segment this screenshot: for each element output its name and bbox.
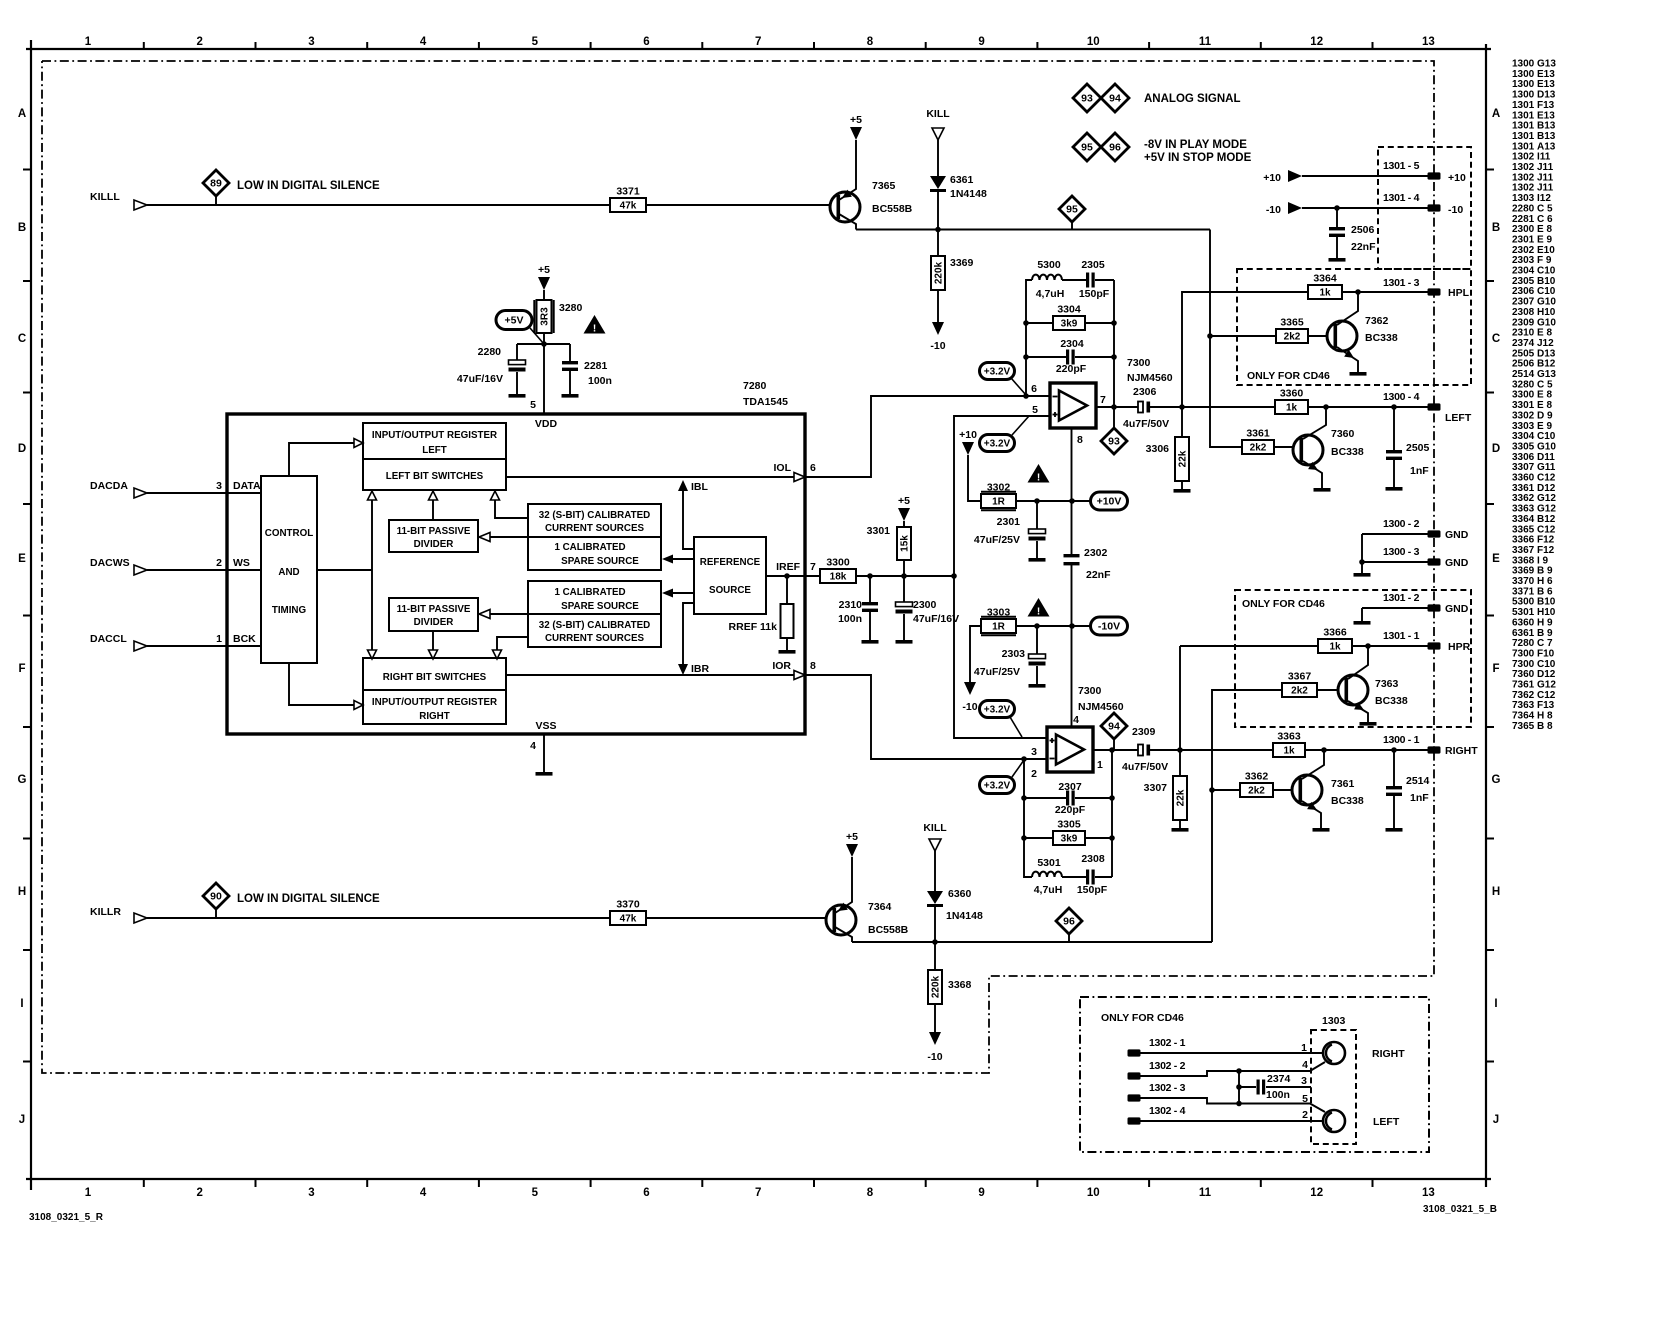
control-switches vertical double arrow (371, 500, 373, 650)
svg-text:D13: D13 (1537, 90, 1556, 101)
svg-text:VDD: VDD (535, 418, 558, 430)
wire 1302-4 (1128, 1117, 1141, 1124)
wire -10V rail (1016, 625, 1091, 627)
svg-text:ANALOG SIGNAL: ANALOG SIGNAL (1144, 93, 1240, 105)
wire KILLL (147, 204, 838, 206)
svg-text:96: 96 (1109, 141, 1121, 153)
svg-text:C12: C12 (1537, 473, 1556, 484)
pad 1301-2 (1428, 604, 1441, 611)
voltage oval -10V (1091, 617, 1128, 635)
svg-text:C: C (1492, 333, 1500, 345)
svg-text:J: J (19, 1114, 25, 1126)
resistor 3307 22k (1179, 750, 1181, 776)
svg-text:REFERENCE: REFERENCE (700, 557, 761, 568)
svg-text:1303: 1303 (1322, 1015, 1346, 1027)
svg-text:J11: J11 (1537, 183, 1554, 194)
svg-text:C12: C12 (1537, 524, 1556, 535)
svg-text:E: E (18, 553, 26, 565)
capacitor 2304 220pF (1026, 356, 1066, 358)
svg-text:6360: 6360 (1512, 617, 1535, 628)
pad 1300-1 (1428, 746, 1441, 753)
svg-text:RREF 11k: RREF 11k (729, 621, 778, 633)
svg-text:BCK: BCK (233, 633, 256, 645)
svg-text:2: 2 (1031, 768, 1037, 780)
svg-text:+10: +10 (1448, 172, 1466, 184)
svg-text:7362: 7362 (1365, 315, 1389, 327)
svg-text:G13: G13 (1537, 369, 1556, 380)
svg-text:2301: 2301 (997, 516, 1021, 528)
svg-text:3302: 3302 (1512, 410, 1535, 421)
svg-text:1302 - 2: 1302 - 2 (1149, 1060, 1186, 1072)
svg-text:5300: 5300 (1512, 597, 1535, 608)
svg-text:BC338: BC338 (1375, 695, 1408, 707)
junction KILL rail / 6360 (932, 939, 938, 945)
IBL bias line (683, 490, 694, 549)
svg-text:3302: 3302 (987, 482, 1011, 494)
svg-text:BC338: BC338 (1331, 795, 1364, 807)
resistor 3366 1k (1318, 639, 1352, 653)
svg-text:2505: 2505 (1406, 442, 1430, 454)
svg-text:1302 - 1: 1302 - 1 (1149, 1037, 1186, 1049)
svg-text:3: 3 (1301, 1075, 1307, 1087)
HPR feed vertical (1179, 646, 1181, 750)
wire HPR branch (1180, 645, 1318, 647)
junction 7361 collector (1321, 747, 1327, 753)
wire sleeve left jack (pin 5) (1239, 1104, 1325, 1113)
svg-text:3280: 3280 (559, 302, 583, 314)
svg-text:BC338: BC338 (1331, 446, 1364, 458)
svg-text:+5V: +5V (505, 315, 524, 327)
wire diamond 96 stem (1068, 934, 1070, 942)
svg-text:2514: 2514 (1512, 369, 1535, 380)
svg-text:7360: 7360 (1512, 669, 1535, 680)
wire KILL-left to mute resistors (1210, 230, 1242, 448)
svg-text:E: E (1492, 553, 1500, 565)
legend diamond 96 (1101, 133, 1129, 161)
wire -10 to 1301-4 (1302, 207, 1428, 209)
svg-text:1303: 1303 (1512, 193, 1535, 204)
svg-text:3361: 3361 (1246, 428, 1270, 440)
svg-text:6: 6 (810, 462, 816, 474)
svg-text:11: 11 (1199, 36, 1212, 48)
block 11-BIT PASSIVE DIVIDER (right) (389, 598, 478, 631)
capacitor 2301 47uF/25V (1036, 501, 1038, 529)
wire 5300 to 2305 (1062, 279, 1086, 281)
capacitor 2514 1nF (1393, 750, 1395, 786)
svg-text:96: 96 (1063, 915, 1075, 927)
svg-text:C 6: C 6 (1537, 214, 1553, 225)
wire 3368 to -10 (934, 1004, 936, 1032)
svg-text:3365: 3365 (1280, 317, 1304, 329)
diamond 96 (on KILL rail) (1056, 908, 1082, 934)
svg-text:3371: 3371 (616, 186, 640, 198)
DACWS input arrow (134, 565, 147, 575)
svg-text:A: A (1492, 108, 1500, 120)
svg-text:SPARE SOURCE: SPARE SOURCE (561, 601, 639, 612)
7364 collector wire (835, 927, 852, 942)
svg-text:2305: 2305 (1081, 259, 1105, 271)
wire diamond 94 stem (1113, 739, 1115, 750)
svg-text:!: ! (593, 324, 596, 335)
svg-text:-10: -10 (1266, 204, 1281, 216)
junction VDD node (541, 341, 547, 347)
svg-text:1k: 1k (1319, 288, 1331, 299)
bottom ruler ticks (143, 1179, 145, 1187)
svg-text:7364: 7364 (868, 901, 892, 913)
svg-text:NJM4560: NJM4560 (1127, 372, 1173, 384)
left row boundary ticks (23, 169, 31, 171)
svg-text:1N4148: 1N4148 (950, 188, 987, 200)
arrow sources to divider (right) (490, 613, 528, 615)
svg-text:F12: F12 (1537, 535, 1555, 546)
block INPUT/OUTPUT REGISTER LEFT (363, 423, 506, 459)
junction 2374 (1236, 1084, 1242, 1090)
transistor 7363 BC338 (1338, 675, 1368, 705)
svg-text:93: 93 (1108, 435, 1120, 447)
svg-text:1 CALIBRATED: 1 CALIBRATED (554, 542, 625, 553)
svg-text:4,7uH: 4,7uH (1034, 884, 1063, 896)
svg-text:RIGHT: RIGHT (1372, 1048, 1405, 1060)
svg-text:E 9: E 9 (1537, 234, 1552, 245)
svg-text:-8V IN PLAY MODE: -8V IN PLAY MODE (1144, 139, 1247, 151)
svg-text:5301: 5301 (1512, 607, 1535, 618)
svg-text:2309: 2309 (1512, 317, 1535, 328)
svg-text:+5: +5 (846, 831, 858, 843)
svg-text:5: 5 (1032, 404, 1038, 416)
svg-text:B: B (18, 222, 26, 234)
pad 1300-2 (1428, 530, 1441, 537)
svg-text:7364: 7364 (1512, 711, 1535, 722)
svg-text:HPL: HPL (1448, 287, 1470, 299)
wire DATA (147, 492, 261, 494)
svg-text:2374: 2374 (1267, 1073, 1291, 1085)
svg-text:CONTROL: CONTROL (265, 528, 313, 539)
svg-text:3363: 3363 (1277, 731, 1301, 743)
svg-text:2514: 2514 (1406, 775, 1430, 787)
jack tie vertical (1238, 1071, 1240, 1104)
svg-text:1300 - 3: 1300 - 3 (1383, 546, 1420, 558)
svg-text:1: 1 (85, 36, 92, 48)
svg-text:+10: +10 (959, 429, 977, 441)
svg-text:C 5: C 5 (1537, 379, 1553, 390)
svg-text:H: H (1492, 886, 1500, 898)
right row boundary ticks (1486, 169, 1494, 171)
feedback rail right (lower) (1111, 750, 1113, 877)
svg-text:J11: J11 (1537, 172, 1554, 183)
svg-text:7360: 7360 (1331, 428, 1355, 440)
diamond 94 (right output) (1101, 713, 1127, 739)
svg-text:5: 5 (532, 36, 539, 48)
7364 emitter to +5 (835, 857, 852, 913)
svg-text:D: D (18, 443, 26, 455)
svg-text:5: 5 (532, 1187, 539, 1199)
svg-text:1k: 1k (1286, 403, 1298, 414)
svg-text:LOW IN DIGITAL SILENCE: LOW IN DIGITAL SILENCE (237, 893, 380, 905)
svg-text:WS: WS (233, 557, 250, 569)
junction 7360 collector (1323, 404, 1329, 410)
svg-text:4u7F/50V: 4u7F/50V (1123, 418, 1169, 430)
svg-text:F10: F10 (1537, 648, 1555, 659)
-10 feed arrow (1288, 202, 1302, 214)
svg-text:100n: 100n (838, 613, 862, 625)
junction RREF/IREF (784, 573, 790, 579)
resistor 3304 3k9 (1026, 322, 1053, 324)
svg-text:8: 8 (810, 660, 816, 672)
diamond 95 (on KILL rail) (1059, 196, 1085, 222)
svg-text:1: 1 (1097, 759, 1103, 771)
svg-text:7300: 7300 (1512, 659, 1535, 670)
svg-text:3303: 3303 (1512, 421, 1535, 432)
wire KILL-left rail (856, 229, 1210, 231)
junction 2505 (1391, 404, 1397, 410)
svg-text:C10: C10 (1537, 266, 1556, 277)
resistor 3306 22k (1181, 407, 1183, 437)
dashed box 1301 supply area (1378, 147, 1471, 269)
svg-text:LEFT: LEFT (1373, 1116, 1400, 1128)
pad 1301-1 (1428, 642, 1441, 649)
svg-text:DACCL: DACCL (90, 633, 127, 645)
svg-text:LEFT: LEFT (1445, 412, 1472, 424)
capacitor 2307 220pF (1024, 797, 1066, 799)
wire IOR to op-amp 7300b (805, 675, 1047, 759)
svg-text:3361: 3361 (1512, 483, 1535, 494)
svg-text:3307: 3307 (1512, 462, 1535, 473)
svg-text:BC558B: BC558B (872, 203, 913, 215)
svg-text:I: I (1494, 998, 1497, 1010)
resistor 3368 220k (928, 970, 942, 1004)
svg-text:+3.2V: +3.2V (984, 367, 1011, 378)
7362 emitter (1337, 347, 1358, 372)
resistor 3367 2k2 (1282, 683, 1317, 697)
wire IREF (766, 575, 954, 577)
RCA jack LEFT (1303) (1323, 1110, 1345, 1132)
svg-text:-10V: -10V (1098, 621, 1120, 633)
diode 6361 1N4148 (930, 176, 946, 189)
svg-text:F: F (1492, 663, 1499, 675)
svg-text:B 6: B 6 (1537, 586, 1553, 597)
svg-text:6361: 6361 (950, 174, 974, 186)
wire 1300-2 GND (1362, 533, 1428, 535)
svg-text:RIGHT: RIGHT (1445, 745, 1478, 757)
svg-text:7363: 7363 (1375, 678, 1399, 690)
svg-text:2506: 2506 (1512, 359, 1535, 370)
leader +5V oval (530, 328, 544, 344)
svg-text:IREF: IREF (776, 561, 801, 573)
svg-text:3364: 3364 (1313, 273, 1337, 285)
junction 7363 collector (1365, 643, 1371, 649)
junction 3305 right (1109, 835, 1115, 841)
svg-text:2k2: 2k2 (1250, 443, 1267, 454)
diode 6360 1N4148 (927, 891, 943, 904)
7362 collector (1337, 292, 1358, 325)
svg-text:12: 12 (1310, 36, 1323, 48)
pad 1301-3 (1428, 288, 1441, 295)
svg-text:INPUT/OUTPUT REGISTER: INPUT/OUTPUT REGISTER (372, 430, 497, 441)
svg-text:2: 2 (216, 557, 222, 569)
svg-text:6: 6 (1031, 383, 1037, 395)
svg-text:9: 9 (978, 36, 984, 48)
svg-text:3360: 3360 (1512, 473, 1535, 484)
svg-text:F13: F13 (1537, 700, 1555, 711)
junction 2304 right (1111, 354, 1117, 360)
transistor 7365 BC558B (PNP) (830, 192, 860, 222)
svg-text:D12: D12 (1537, 669, 1556, 680)
svg-text:7280: 7280 (743, 380, 767, 392)
svg-text:1302: 1302 (1512, 172, 1535, 183)
svg-text:150pF: 150pF (1077, 884, 1108, 896)
svg-text:A: A (18, 108, 26, 120)
pad 1301-4 (1428, 204, 1441, 211)
RCA jack RIGHT (1303) (1323, 1042, 1345, 1064)
IBR bias line (683, 603, 694, 665)
svg-text:3363: 3363 (1512, 504, 1535, 515)
arrow control to I/O register left (289, 443, 354, 476)
svg-text:1nF: 1nF (1410, 465, 1429, 477)
svg-text:12: 12 (1310, 1187, 1323, 1199)
svg-text:4u7F/50V: 4u7F/50V (1122, 761, 1168, 773)
junction 3362 feed (1209, 787, 1215, 793)
svg-text:H10: H10 (1537, 607, 1556, 618)
resistor 3365 2k2 (1276, 329, 1308, 343)
VSS pin 4 (543, 734, 545, 772)
op-amp U7300a NJM4560 (1050, 383, 1096, 428)
svg-text:D 9: D 9 (1537, 410, 1553, 421)
arrow current sources left to LEFT BIT SWITCHES (495, 500, 528, 518)
op-amp U7300b NJM4560 (1047, 727, 1093, 772)
svg-text:2281: 2281 (1512, 214, 1535, 225)
svg-text:2309: 2309 (1132, 726, 1156, 738)
svg-text:2: 2 (196, 1187, 202, 1199)
svg-text:LOW IN DIGITAL SILENCE: LOW IN DIGITAL SILENCE (237, 180, 380, 192)
svg-text:+10V: +10V (1097, 496, 1122, 508)
svg-text:2310: 2310 (1512, 328, 1535, 339)
svg-text:15k: 15k (900, 535, 911, 552)
svg-text:3369: 3369 (950, 257, 974, 269)
svg-text:B10: B10 (1537, 276, 1556, 287)
svg-text:DACWS: DACWS (90, 557, 130, 569)
svg-text:7300: 7300 (1127, 357, 1151, 369)
svg-text:B: B (1492, 222, 1500, 234)
svg-text:3301: 3301 (1512, 400, 1535, 411)
svg-text:220pF: 220pF (1056, 363, 1087, 375)
svg-text:1300 - 1: 1300 - 1 (1383, 734, 1420, 746)
svg-text:1 CALIBRATED: 1 CALIBRATED (554, 587, 625, 598)
7365 collector wire (839, 214, 856, 230)
warning triangle (-10V) (1028, 598, 1050, 617)
svg-text:3370: 3370 (1512, 576, 1535, 587)
capacitor 2280 47uF/16V (516, 344, 518, 360)
svg-text:3362: 3362 (1512, 493, 1535, 504)
svg-text:22nF: 22nF (1351, 241, 1376, 253)
7361 collector (1302, 750, 1324, 779)
wire diamond 90 stem (215, 909, 217, 918)
supply +5 (7365) (850, 127, 862, 140)
svg-text:KILLL: KILLL (90, 191, 120, 203)
svg-text:E13: E13 (1537, 79, 1555, 90)
voltage oval +3.2V (pin6) (980, 363, 1015, 380)
svg-text:G: G (18, 774, 27, 786)
svg-text:4: 4 (1302, 1059, 1308, 1071)
block CONTROL AND TIMING (261, 476, 317, 663)
svg-text:2303: 2303 (1512, 255, 1535, 266)
wire +10V rail (1016, 500, 1091, 502)
svg-text:3368: 3368 (948, 979, 972, 991)
svg-text:E 8: E 8 (1537, 224, 1552, 235)
wire 3365 to 7362 base (1308, 335, 1335, 337)
svg-text:22k: 22k (1176, 789, 1187, 806)
svg-text:2304: 2304 (1060, 338, 1084, 350)
svg-text:F 9: F 9 (1537, 255, 1552, 266)
svg-text:-10: -10 (962, 701, 977, 713)
svg-text:2281: 2281 (584, 360, 608, 372)
svg-text:I11: I11 (1537, 152, 1551, 163)
capacitor 2302 22nF (1064, 554, 1080, 557)
wire IOR inside DAC (506, 674, 794, 676)
DACDA input arrow (134, 488, 147, 498)
svg-text:B13: B13 (1537, 131, 1556, 142)
resistor 3280 3R3 (fusible) (537, 300, 552, 333)
wire RIGHT output (1147, 749, 1428, 751)
diamond 90 (203, 883, 229, 909)
arrow divider right to RIGHT BIT SWITCHES (432, 631, 434, 650)
wire 2305 to rail (1095, 279, 1114, 281)
svg-text:11-BIT PASSIVE: 11-BIT PASSIVE (397, 604, 471, 615)
svg-text:4,7uH: 4,7uH (1036, 288, 1065, 300)
svg-text:4: 4 (530, 740, 536, 752)
block 32 S-BIT calibrated current sources / spare (left) (528, 504, 661, 570)
svg-text:3360: 3360 (1280, 388, 1304, 400)
+10 feed arrow (1288, 170, 1302, 182)
svg-text:E 8: E 8 (1537, 400, 1552, 411)
resistor 3305 3k9 (1024, 837, 1053, 839)
wire 1300-3 GND (1362, 561, 1428, 563)
svg-text:D: D (1492, 443, 1500, 455)
svg-text:3304: 3304 (1512, 431, 1535, 442)
voltage oval +5V (496, 311, 532, 330)
svg-text:2303: 2303 (1002, 648, 1026, 660)
resistor 3302 1R (fusible) (981, 494, 1016, 508)
voltage oval +3.2V (pin2) (980, 777, 1015, 794)
svg-text:3300: 3300 (826, 557, 850, 569)
svg-text:3365: 3365 (1512, 524, 1535, 535)
wire diode 6360 to resistor 3368 (934, 907, 936, 970)
svg-text:VSS: VSS (535, 720, 556, 732)
capacitor 2306 4u7F/50V (1138, 402, 1143, 413)
svg-text:1302 - 4: 1302 - 4 (1149, 1105, 1186, 1117)
capacitor 2506 22nF (1336, 208, 1338, 227)
wire 3361 to 7360 base (1274, 446, 1293, 448)
svg-text:2301: 2301 (1512, 234, 1535, 245)
svg-text:H: H (18, 886, 26, 898)
7360 emitter (1303, 461, 1322, 488)
svg-text:H 9: H 9 (1537, 617, 1553, 628)
supply -10 (3368) (929, 1032, 941, 1045)
border frame outer (26, 48, 1491, 50)
svg-text:7365: 7365 (872, 180, 896, 192)
svg-text:9: 9 (978, 1187, 984, 1199)
svg-text:C10: C10 (1537, 431, 1556, 442)
svg-text:F13: F13 (1537, 100, 1555, 111)
junction 3365 feed (1207, 333, 1213, 339)
junction output/feedback (b) (1109, 747, 1115, 753)
wire to 3362 (1212, 789, 1240, 791)
svg-text:100n: 100n (588, 375, 612, 387)
svg-text:2300: 2300 (913, 599, 937, 611)
svg-text:C10: C10 (1537, 659, 1556, 670)
svg-text:1: 1 (85, 1187, 92, 1199)
resistor 3360 1k (1275, 400, 1308, 414)
junction KILL rail / 6361 (935, 227, 941, 233)
